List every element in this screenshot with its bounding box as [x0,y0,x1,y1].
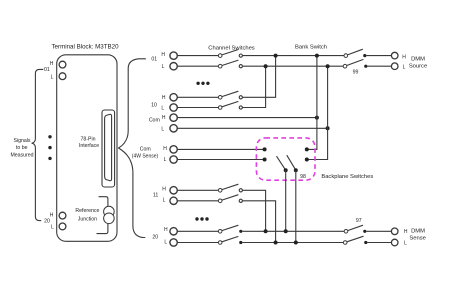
switch 10 L [218,106,222,110]
wire Com H [177,117,317,119]
block terminal 01 L [59,73,66,80]
svg-text:01: 01 [44,67,50,73]
terminal Com4W L [170,156,177,163]
svg-text:L: L [403,64,406,70]
backplane node L right [305,158,309,162]
svg-text:20: 20 [152,234,158,240]
78-pin interface connector outer [102,110,115,187]
wire L bus top [242,65,343,67]
svg-text:H: H [404,229,408,235]
terminal 11 L [170,197,177,204]
switch 20 L [218,241,222,245]
svg-text:L: L [51,224,54,230]
svg-text:Bank Switch: Bank Switch [295,44,327,50]
bank switch 99 L blade [347,59,364,65]
cable fan boundary [119,59,146,238]
svg-text:H: H [161,52,165,58]
svg-text:Junction: Junction [78,216,97,222]
svg-text:H: H [162,187,166,193]
wire Com4W H [177,148,264,150]
DMM sense terminal H [391,228,398,235]
bank switch 99 H blade [348,49,363,55]
svg-text:(4W Sense): (4W Sense) [132,154,159,160]
wire to DMM source L [367,65,391,67]
junction 11H on 20H [264,229,268,233]
svg-text:H: H [164,227,168,233]
78-pin interface connector inner [105,114,112,180]
terminal 01 L [170,62,177,69]
terminal Com L [170,125,177,132]
svg-text:L: L [163,198,166,204]
junction bank L [326,64,330,68]
terminal 20 L [170,239,177,246]
DMM source terminal L [391,63,398,70]
terminal Com H [170,114,177,121]
block terminal 20 H [59,212,66,219]
svg-text:Signals: Signals [13,138,30,144]
ellipsis dots channels bottom [195,217,208,220]
wire 20 L [177,242,218,244]
junction 11L on 20L [274,241,278,245]
svg-text:H: H [163,146,167,152]
block terminal 20 L [59,223,66,230]
wire 11 H drop [242,190,265,231]
brace signals to be measured [32,69,44,220]
backplane switch pivot 1 [284,168,288,172]
bank switch 99 H contact [363,54,366,57]
wire bank L drop [307,66,328,159]
svg-text:Interface: Interface [79,143,99,149]
wire 01 L [177,65,218,67]
backplane box [256,138,315,180]
svg-text:Measured: Measured [10,153,33,159]
reference junction symbol [104,206,115,217]
junction 10L bus [264,64,268,68]
switch 97 L blade [347,236,364,242]
junction Com H [315,116,319,120]
terminal 11 H [170,187,177,194]
bank switch 99 L contact [364,65,367,68]
svg-text:97: 97 [356,218,362,224]
svg-text:11: 11 [153,193,158,199]
wire H bus top [242,55,344,57]
svg-text:L: L [164,240,167,246]
terminal 10 L [170,104,177,111]
svg-text:98: 98 [300,174,306,180]
switch 97 L contact [364,241,367,244]
backplane switch blade 2 [287,155,296,170]
wire to DMM source H [366,55,391,57]
switch 97 H pivot [344,230,348,234]
switch 10 H [218,96,222,100]
svg-text:Sense: Sense [409,236,425,242]
backplane node H left [263,147,267,151]
svg-text:H: H [50,212,54,218]
switch 01 L [218,64,222,68]
svg-text:Channel Switches: Channel Switches [208,46,255,52]
ellipsis dots left [48,135,51,160]
svg-text:L: L [161,126,164,132]
svg-text:L: L [162,64,165,70]
svg-text:99: 99 [353,69,359,75]
switch 01 H [218,54,222,58]
svg-text:Com: Com [149,117,160,123]
svg-text:10: 10 [151,102,157,108]
wire 20 H bus [242,230,344,232]
terminal 20 H [170,228,177,235]
svg-text:DMM: DMM [411,228,425,234]
wire 10 L [177,107,218,109]
svg-text:DMM: DMM [411,56,425,62]
svg-text:H: H [50,61,54,67]
bank switch 99 L pivot [343,64,347,68]
svg-text:L: L [51,74,54,80]
wire backplane drop H [285,170,287,231]
svg-text:Com: Com [140,147,151,153]
backplane node H right [305,147,309,151]
wire 10 H riser [242,56,275,98]
svg-text:Source: Source [409,64,427,70]
junction 10H bus [274,54,278,58]
DMM sense terminal L [391,239,398,246]
switch 97 L pivot [343,241,347,245]
wire 01 H [177,55,218,57]
switch 20 H [218,230,222,234]
wire 20 L bus [242,242,343,244]
reference junction bracket [97,197,108,234]
wire to DMM sense H [366,230,391,232]
wire to DMM sense L [367,242,391,244]
switch 97 H blade [348,225,363,230]
switch 97 H contact [363,230,366,233]
svg-text:Backplane Switches: Backplane Switches [321,174,373,180]
block terminal 01 H [59,61,66,68]
bank switch 99 H pivot [344,54,348,58]
terminal block M3TB20 outline [57,55,117,242]
svg-text:H: H [162,115,166,121]
DMM source terminal H [391,52,398,59]
terminal 10 H [170,94,177,101]
junction Com L [326,126,330,130]
switch 11 H [218,189,222,193]
junction bank H [315,54,319,58]
ellipsis dots channels top [196,82,209,85]
svg-text:L: L [161,106,164,112]
wire backplane drop L [295,170,297,242]
junction bp H on 20H [284,229,288,233]
backplane switch blade 1 [277,156,286,170]
junction bp L on 20L [294,241,298,245]
backplane node L left [263,158,267,162]
svg-text:Terminal Block: M3TB20: Terminal Block: M3TB20 [51,44,119,51]
svg-text:H: H [402,55,406,61]
wire Com4W L [177,159,264,161]
switch 11 L [218,199,222,203]
svg-text:Reference: Reference [75,208,99,214]
terminal 01 H [170,52,177,59]
svg-text:78-Pin: 78-Pin [81,136,96,142]
wire Com L [177,127,327,129]
wire 10 L riser [242,66,265,107]
terminal Com4W H [170,146,177,153]
svg-text:L: L [404,241,407,247]
wire 11 L [177,200,218,202]
backplane switch pivot 2 [294,168,298,172]
svg-text:01: 01 [151,57,157,63]
wire bank H drop [307,56,317,150]
wire 11 H [177,189,218,191]
wire 11 L drop [242,201,275,243]
svg-text:L: L [164,157,167,163]
svg-text:20: 20 [44,218,50,224]
wire 10 H [177,96,218,98]
svg-text:H: H [162,95,166,101]
wire 20 H [177,230,218,232]
svg-text:to be: to be [16,145,28,151]
